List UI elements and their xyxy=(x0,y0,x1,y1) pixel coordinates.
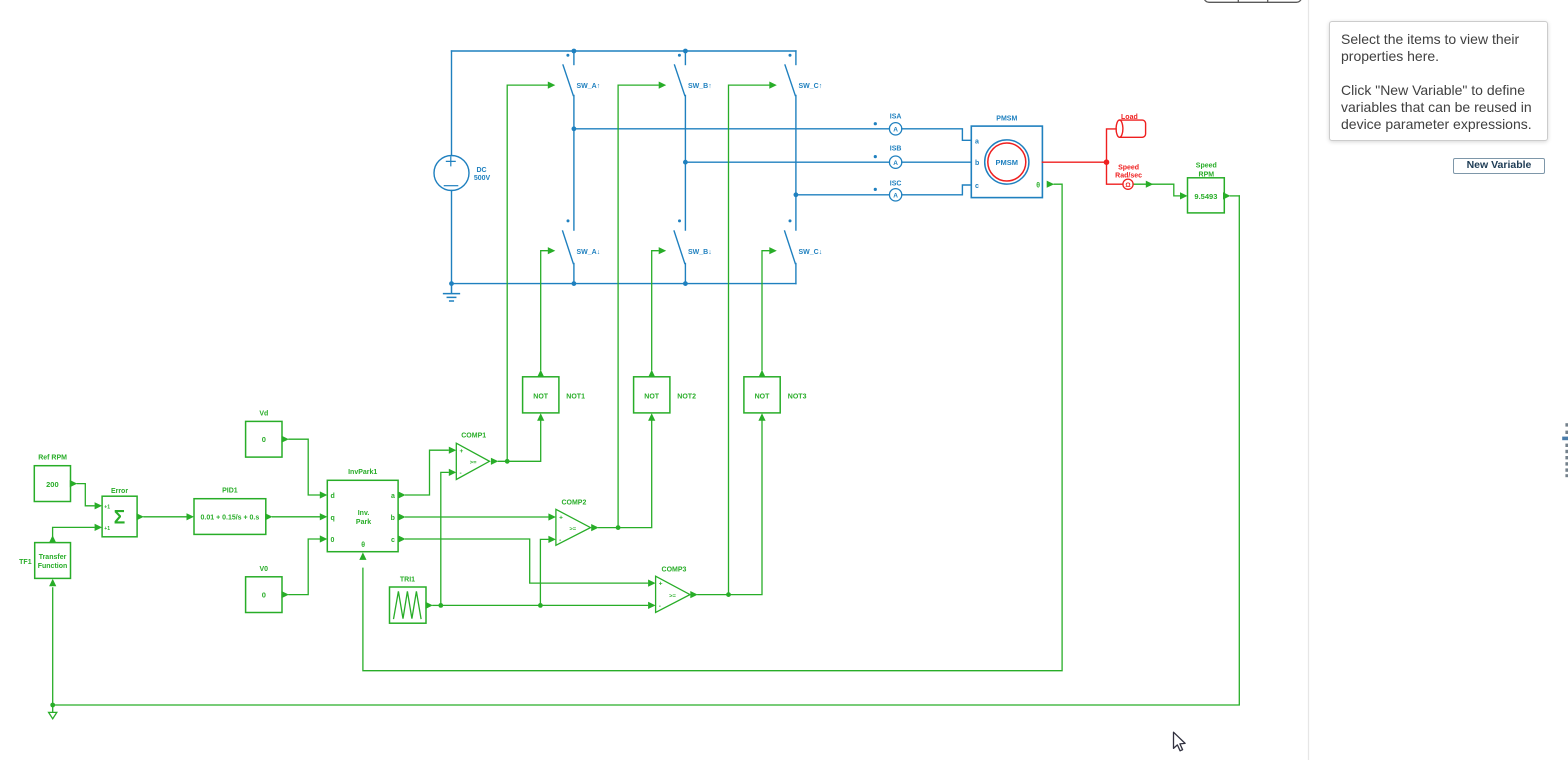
toolbar divider 1 xyxy=(1237,0,1239,2)
wire: ISB to PMSM pin b xyxy=(902,161,972,163)
svg-text:NOT3: NOT3 xyxy=(788,394,807,401)
wire: NOT1 out to SW_A-bottom control xyxy=(541,251,548,370)
New Variable button xyxy=(1453,158,1545,174)
arrow: InvPark1 c output xyxy=(398,535,406,542)
svg-text:SW_B↑: SW_B↑ xyxy=(688,83,712,90)
arrow: NOT1 input up xyxy=(537,413,544,421)
arrow: COMP2 - input xyxy=(548,536,556,543)
svg-text:θ: θ xyxy=(1036,182,1040,189)
wire: InvPark1 c out to COMP3 + xyxy=(406,539,648,583)
ammeter ISB polarity dot xyxy=(874,155,877,158)
junction: bottom bus / SW_B xyxy=(683,281,688,286)
wire: Vd out to InvPark1 d xyxy=(289,439,320,495)
junction: top bus / SW_B xyxy=(683,49,688,54)
svg-text:NOT2: NOT2 xyxy=(677,394,696,401)
svg-text:InvPark1: InvPark1 xyxy=(348,469,377,476)
switch SW_A-top state dot xyxy=(566,54,569,57)
arrow: COMP3 - input xyxy=(648,602,656,609)
switch SW_B-bottom state dot xyxy=(678,219,681,222)
mouse cursor xyxy=(1174,732,1186,751)
wire: Speed RPM out xyxy=(1231,195,1240,197)
wire: DC- to bottom bus xyxy=(451,191,453,284)
toolbar divider 2 xyxy=(1267,0,1269,2)
switch SW_A-top: blade xyxy=(563,65,573,96)
arrow: COMP3 output xyxy=(690,591,698,598)
svg-text:+1: +1 xyxy=(104,504,110,510)
arrow: Ref RPM output xyxy=(70,480,78,487)
arrow: InvPark1 q input xyxy=(320,513,328,520)
wire: TF1 bottom in from feedback xyxy=(52,588,54,705)
wire: phase A to ammeter ISA xyxy=(574,128,890,130)
block Speed RPM outline xyxy=(1188,178,1225,213)
top toolbar button group (clipped) xyxy=(1204,0,1302,2)
svg-text:0.01 + 0.15/s + 0.s: 0.01 + 0.15/s + 0.s xyxy=(201,514,260,521)
properties hint panel xyxy=(1329,21,1548,141)
wire: TRI junction right to COMP3 - xyxy=(441,604,648,606)
svg-text:q: q xyxy=(331,515,335,522)
block TF1 outline xyxy=(35,543,71,579)
switch SW_C-top state dot xyxy=(789,54,792,57)
switch SW_A-bottom: stub xyxy=(573,264,575,284)
wire: COMP3 out to junction to SW_C-top control xyxy=(698,85,769,594)
wire: phase C to ammeter ISC xyxy=(796,194,890,196)
svg-text:Ω: Ω xyxy=(1125,182,1130,189)
junction: bottom bus / SW_A xyxy=(572,281,577,286)
arrow: TF1 output up xyxy=(49,535,56,543)
arrow: InvPark1 a output xyxy=(398,491,406,498)
block PID1 outline xyxy=(194,499,266,535)
junction: COMP1 output node xyxy=(505,459,510,464)
svg-text:Rad/sec: Rad/sec xyxy=(1115,173,1142,180)
svg-text:b: b xyxy=(975,160,979,167)
arrow: Speed RPM output xyxy=(1223,192,1231,199)
wire: ISC to PMSM pin c xyxy=(902,185,972,195)
wire: TRI junction up to COMP1 - xyxy=(441,472,448,605)
svg-text:PID1: PID1 xyxy=(222,488,238,495)
junction: bottom bus / DC- xyxy=(449,281,454,286)
wire: InvPark1 b out to COMP2 + xyxy=(406,516,548,518)
motor PMSM block outline xyxy=(971,126,1042,198)
switch SW_A-bottom: blade xyxy=(563,231,574,264)
wire: NOT2 out to SW_B-bottom control xyxy=(652,251,659,370)
gate NOT2 outline xyxy=(634,377,670,413)
svg-text:SW_B↓: SW_B↓ xyxy=(688,249,712,256)
svg-text:d: d xyxy=(331,493,335,500)
junction: top bus / SW_A xyxy=(572,49,577,54)
ammeter ISC polarity dot xyxy=(874,188,877,191)
svg-text:c: c xyxy=(391,537,395,544)
switch SW_C-bottom state dot xyxy=(789,219,792,222)
arrow: Error output xyxy=(136,513,144,520)
arrow: COMP1 + input xyxy=(449,447,457,454)
ammeter ISC circle xyxy=(889,189,901,201)
svg-text:Speed: Speed xyxy=(1118,165,1139,172)
wire: COMP1 out to junction to SW_A-top control xyxy=(498,85,547,461)
svg-text:ISB: ISB xyxy=(890,145,902,152)
comparator COMP1 triangle xyxy=(456,443,489,479)
terminator open arrow below TF1 xyxy=(49,705,57,719)
arrow: SW_C-bottom gate xyxy=(769,247,777,254)
svg-text:NOT: NOT xyxy=(533,394,549,401)
ammeter ISB circle xyxy=(889,156,901,168)
svg-text:+: + xyxy=(659,581,663,588)
svg-text:Transfer: Transfer xyxy=(39,554,67,561)
svg-text:Speed: Speed xyxy=(1196,163,1217,170)
wire: bottom bus xyxy=(452,283,796,285)
svg-text:COMP3: COMP3 xyxy=(662,566,687,573)
block V0 outline xyxy=(246,577,282,613)
svg-text:TF1: TF1 xyxy=(19,559,32,566)
arrow: PMSM theta output xyxy=(1047,181,1055,188)
svg-text:PMSM: PMSM xyxy=(996,116,1017,123)
wire: PID1 out to InvPark1 q xyxy=(273,516,320,518)
svg-text:NOT: NOT xyxy=(644,394,660,401)
arrow: NOT2 input up xyxy=(648,413,655,421)
svg-text:Vd: Vd xyxy=(259,410,268,417)
svg-text:0: 0 xyxy=(262,435,266,444)
arrow: Speed RPM input xyxy=(1180,192,1188,199)
svg-text:θ: θ xyxy=(361,542,365,549)
arrow: SW_C-top gate xyxy=(769,82,777,89)
svg-text:SW_A↓: SW_A↓ xyxy=(577,249,601,256)
svg-text:COMP2: COMP2 xyxy=(561,500,586,507)
switch SW_B-bottom: blade xyxy=(674,231,685,264)
svg-text:PMSM: PMSM xyxy=(996,158,1019,167)
arrow: COMP2 output xyxy=(591,524,599,531)
arrow: TRI1 output xyxy=(425,602,433,609)
sensor Speed Rad/sec circle xyxy=(1123,179,1133,189)
svg-text:>=: >= xyxy=(470,460,477,466)
arrow: NOT1 output up xyxy=(537,370,544,378)
svg-text:SW_C↑: SW_C↑ xyxy=(799,83,823,90)
arrow: SW_A-bottom gate xyxy=(548,247,556,254)
block Vd outline xyxy=(246,421,282,457)
dc source plus sign xyxy=(446,157,455,166)
svg-text:ISA: ISA xyxy=(890,114,902,121)
junction: phase C node xyxy=(794,192,799,197)
wire: speed sensor to Speed RPM block xyxy=(1133,184,1180,196)
wire: COMP3 junction to NOT3 in xyxy=(729,421,763,595)
svg-text:-: - xyxy=(659,603,661,610)
arrow: SW_A-top gate xyxy=(548,82,556,89)
wire: TF1 top out to Error +1 lower xyxy=(53,527,95,537)
svg-text:-: - xyxy=(559,537,561,544)
svg-text:ISC: ISC xyxy=(890,181,902,188)
wire: NOT3 out to SW_C-bottom control xyxy=(762,251,769,370)
svg-text:Error: Error xyxy=(111,488,128,495)
svg-text:>=: >= xyxy=(669,593,676,599)
switch SW_C column xyxy=(795,96,797,231)
arrow: Error input upper xyxy=(95,502,103,509)
wire: shaft node up to Load xyxy=(1107,129,1117,162)
switch SW_C-bottom: stub xyxy=(795,264,797,284)
wire: V0 out to InvPark1 0 xyxy=(289,539,320,595)
svg-text:+1: +1 xyxy=(104,526,110,532)
arrow: speed wire mid xyxy=(1146,181,1154,188)
wire: DC+ to bus xyxy=(451,51,453,156)
arrow: NOT3 input up xyxy=(758,413,765,421)
switch SW_B-top: blade xyxy=(675,65,685,96)
svg-text:c: c xyxy=(975,183,979,190)
junction: shaft node xyxy=(1104,159,1110,165)
wire: COMP2 out to junction to SW_B-top control xyxy=(599,85,659,527)
switch SW_B-top: stub xyxy=(684,51,686,65)
switch SW_B-bottom: stub xyxy=(684,264,686,284)
junction: TRI branch node xyxy=(538,603,543,608)
switch SW_A column xyxy=(573,96,575,231)
summer Error block outline xyxy=(102,496,137,537)
junction: TRI1 output node xyxy=(438,603,443,608)
arrow: Error input lower xyxy=(95,524,103,531)
load Load1 cylinder xyxy=(1120,120,1146,137)
wire: phase B to ammeter ISB xyxy=(685,161,889,163)
switch SW_B-top state dot xyxy=(678,54,681,57)
wire: Ref RPM out to Error +1 upper xyxy=(77,484,94,506)
ammeter ISA circle xyxy=(889,123,901,135)
switch SW_A-top: stub xyxy=(573,51,575,65)
dc source minus sign xyxy=(444,185,457,187)
svg-text:V0: V0 xyxy=(260,566,269,573)
dc source V1 circle xyxy=(434,156,469,191)
arrow: COMP1 - input xyxy=(449,469,457,476)
svg-text:Σ: Σ xyxy=(114,508,125,529)
svg-text:0: 0 xyxy=(331,537,335,544)
arrow: COMP1 output xyxy=(491,458,499,465)
arrow: SW_B-top gate xyxy=(659,82,667,89)
wire: ISA to PMSM pin a xyxy=(902,129,972,141)
switch SW_B column xyxy=(684,96,686,231)
wire: InvPark1 a out to COMP1 + xyxy=(406,450,449,495)
gate NOT3 outline xyxy=(744,377,780,413)
svg-text:COMP1: COMP1 xyxy=(461,433,486,440)
svg-text:a: a xyxy=(975,138,979,145)
wire: TRI1 out to junction xyxy=(433,604,441,606)
wire: shaft node down to speed sensor xyxy=(1107,162,1123,184)
ground symbol xyxy=(444,284,460,301)
svg-text:NOT: NOT xyxy=(755,394,771,401)
PMSM inner red circle xyxy=(988,143,1026,181)
wire: COMP2 junction to NOT2 in xyxy=(618,421,652,528)
wire: Error out to PID1 in xyxy=(144,516,187,518)
arrow: COMP2 + input xyxy=(548,513,556,520)
svg-text:0: 0 xyxy=(262,591,266,600)
wire: bottom feedback run xyxy=(53,196,1240,705)
svg-text:Load: Load xyxy=(1121,114,1138,121)
block TRI1 outline xyxy=(390,587,427,623)
panel divider line xyxy=(1308,0,1310,760)
arrow: Vd output xyxy=(281,436,289,443)
svg-text:-: - xyxy=(460,470,462,477)
comparator COMP2 triangle xyxy=(556,509,591,545)
switch SW_C-top: stub xyxy=(795,51,797,65)
wire: COMP1 junction to NOT1 in xyxy=(507,421,541,462)
arrow: PID1 input xyxy=(187,513,195,520)
svg-text:9.5493: 9.5493 xyxy=(1194,192,1217,201)
block InvPark1 outline xyxy=(327,480,398,551)
svg-text:A: A xyxy=(893,126,898,133)
svg-text:A: A xyxy=(893,192,898,199)
switch SW_A-bottom state dot xyxy=(567,219,570,222)
svg-text:A: A xyxy=(893,160,898,167)
wire: PMSM shaft out xyxy=(1042,161,1106,163)
wire: TRI branch up to COMP2 - xyxy=(540,539,547,605)
svg-text:TRI1: TRI1 xyxy=(400,576,415,583)
arrow: TF1 input up xyxy=(49,579,56,587)
arrow: V0 output xyxy=(281,591,289,598)
junction: COMP2 output node xyxy=(616,525,621,530)
svg-text:Function: Function xyxy=(38,563,68,570)
wire: theta feedback from PMSM to InvPark1 xyxy=(363,184,1062,671)
svg-text:+: + xyxy=(460,448,464,455)
junction: COMP3 output node xyxy=(726,592,731,597)
arrow: PID1 output xyxy=(265,513,273,520)
svg-text:Ref RPM: Ref RPM xyxy=(38,454,67,461)
switch SW_C-bottom: blade xyxy=(785,231,796,264)
junction: feedback at TF1 xyxy=(50,703,55,708)
arrow: NOT3 output up xyxy=(758,370,765,378)
svg-text:SW_A↑: SW_A↑ xyxy=(577,83,601,90)
svg-text:NOT1: NOT1 xyxy=(566,394,585,401)
block Ref RPM outline xyxy=(34,466,70,502)
svg-text:b: b xyxy=(391,515,395,522)
svg-text:a: a xyxy=(391,493,395,500)
svg-text:200: 200 xyxy=(46,480,59,489)
svg-text:Park: Park xyxy=(356,519,371,526)
svg-text:+: + xyxy=(559,514,563,521)
arrow: InvPark1 d input xyxy=(320,491,328,498)
gate NOT1 outline xyxy=(523,377,559,413)
wire: top DC bus xyxy=(452,50,796,52)
arrow: InvPark1 0 input xyxy=(320,535,328,542)
svg-text:500V: 500V xyxy=(474,175,491,182)
motor PMSM inner blue circle xyxy=(985,140,1029,184)
triangle-wave glyph in TRI1 xyxy=(394,591,421,618)
arrow: SW_B-bottom gate xyxy=(659,247,667,254)
arrow: COMP3 + input xyxy=(648,580,656,587)
svg-text:Inv.: Inv. xyxy=(358,510,370,517)
junction: phase B node xyxy=(683,160,688,165)
switch SW_C-top: blade xyxy=(785,65,795,96)
svg-text:RPM: RPM xyxy=(1199,171,1215,178)
comparator COMP3 triangle xyxy=(656,576,690,612)
junction: phase A node xyxy=(572,126,577,131)
arrow: InvPark1 b output xyxy=(398,513,406,520)
svg-text:SW_C↓: SW_C↓ xyxy=(799,249,823,256)
svg-text:>=: >= xyxy=(569,526,576,532)
arrow: InvPark1 theta input up xyxy=(359,552,366,560)
svg-text:DC: DC xyxy=(476,167,486,174)
arrow: NOT2 output up xyxy=(648,370,655,378)
ammeter ISA polarity dot xyxy=(874,122,877,125)
right edge clipped tab marks xyxy=(1562,423,1568,477)
